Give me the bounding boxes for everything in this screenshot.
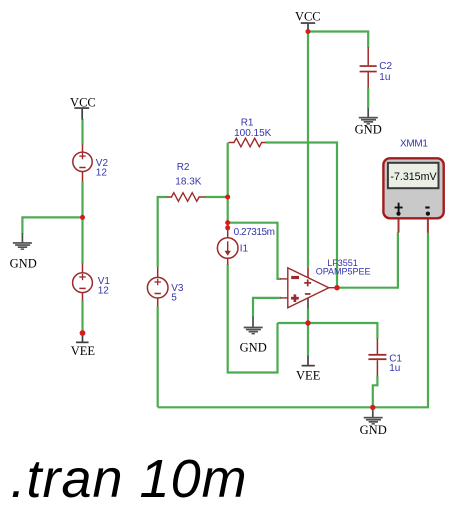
svg-text:R2: R2: [177, 162, 190, 173]
voltage source V1: [73, 263, 93, 300]
svg-text:R1: R1: [241, 117, 254, 128]
pin stub V+: [307, 268, 309, 278]
ground symbol (bottom right): [360, 407, 387, 436]
marker minus (V-): [305, 293, 311, 295]
wire VCC-top to opamp V+: [307, 32, 309, 269]
junction node opamp VEE net: [305, 320, 310, 325]
wire R1 right to feedback down to output: [265, 143, 337, 288]
power symbol VCC (top): [295, 10, 321, 31]
svg-text:.tran 10m: .tran 10m: [11, 449, 248, 509]
wire C1 bottom jog to bottom rail: [373, 376, 378, 407]
wire net y=323 opamp VEE junction to C1: [278, 323, 378, 339]
svg-text:0.27315m: 0.27315m: [234, 227, 275, 238]
marker minus (inverting): [291, 276, 299, 279]
svg-text:-7.315mV: -7.315mV: [390, 171, 437, 183]
pin stub non-inverting input: [280, 297, 288, 299]
svg-text:GND: GND: [10, 257, 37, 271]
svg-text:VCC: VCC: [295, 10, 321, 24]
resistor R2: [167, 193, 205, 202]
svg-text:18.3K: 18.3K: [175, 177, 201, 188]
wire VCC-left down to V2: [81, 119, 83, 145]
wire output to multimeter plus: [337, 232, 398, 287]
voltage source V2: [73, 144, 92, 181]
resistor R1: [229, 138, 266, 147]
svg-text:GND: GND: [240, 341, 267, 355]
wire inverting-input net: [228, 223, 281, 279]
wire V1 bottom to VEE-left: [81, 300, 83, 333]
ground symbol (under C2): [355, 108, 382, 136]
marker plus (non-inverting): [291, 294, 299, 302]
wire non-inverting input to GND-mid: [253, 298, 281, 317]
svg-text:1u: 1u: [389, 363, 400, 374]
voltage source V3: [147, 267, 168, 306]
svg-text:C2: C2: [379, 61, 392, 72]
svg-text:VEE: VEE: [71, 344, 96, 358]
wire opamp V- pin to VEE-mid: [307, 308, 309, 356]
wire C2 bottom to GND: [367, 87, 369, 108]
capacitor C1: [368, 338, 386, 376]
svg-text:XMM1: XMM1: [400, 138, 428, 149]
svg-text:GND: GND: [360, 423, 387, 437]
svg-text:1u: 1u: [379, 72, 390, 83]
svg-text:GND: GND: [355, 122, 382, 136]
wire R2 right to main node column: [205, 196, 228, 198]
power symbol VEE (left): [71, 333, 96, 358]
pin stub inverting input: [280, 278, 289, 280]
junction node R2/R1 column: [225, 195, 230, 200]
junction node inverting branch: [225, 220, 230, 225]
capacitor C2: [360, 47, 377, 88]
wire V3 top to R2 left: [158, 197, 167, 267]
wire VCC-top to C2: [308, 32, 368, 48]
svg-text:5: 5: [171, 293, 177, 304]
svg-text:VEE: VEE: [296, 368, 321, 382]
triangle body: [288, 268, 329, 308]
wire V2 bottom to node / GND-left branch: [22, 181, 82, 233]
junction node bottom GND: [370, 405, 375, 410]
pin stub output: [328, 287, 337, 289]
junction node I1 top: [225, 225, 230, 230]
junction node at VEE left: [80, 330, 86, 336]
svg-text:12: 12: [96, 167, 108, 178]
wire main column R1-left down through junctions to I1: [227, 143, 229, 230]
junction node left rail (V2/V1/GND): [80, 215, 85, 220]
current source I1: [217, 229, 238, 265]
multimeter XMM1: [383, 158, 443, 232]
wire I1 bottom to feedback loop bottom: [228, 264, 278, 372]
ground symbol (mid, opamp + input): [240, 317, 267, 355]
svg-text:100.15K: 100.15K: [234, 128, 272, 139]
ground symbol (left, near V2): [10, 233, 37, 271]
pin stub V-: [307, 298, 309, 309]
junction node at VCC top: [306, 29, 311, 34]
svg-text:12: 12: [98, 285, 110, 296]
marker plus (V+): [304, 279, 311, 286]
op-amp U1 (LF3551 OPAMP5PEE): [280, 268, 337, 309]
svg-text:I1: I1: [240, 244, 249, 255]
junction node opamp output: [334, 285, 339, 290]
wire V3 bottom to rail: [157, 306, 159, 407]
wire node down to V1 top: [81, 217, 83, 263]
svg-text:OPAMP5PEE: OPAMP5PEE: [316, 267, 371, 277]
power symbol VCC (left): [70, 96, 96, 120]
svg-text:VCC: VCC: [70, 96, 96, 110]
power symbol VEE (mid, opamp negative supply): [296, 356, 321, 383]
wire bottom rail: [158, 232, 428, 407]
